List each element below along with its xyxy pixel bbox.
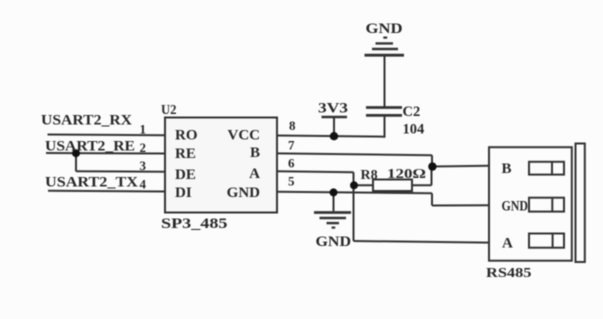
resistor R8 right lead — [412, 184, 432, 186]
svg-text:A: A — [502, 236, 513, 252]
capacitor C2 plates — [366, 108, 402, 116]
svg-text:C2: C2 — [403, 104, 421, 120]
wire GND vertical drop — [431, 193, 433, 205]
junction dot B / R8 right — [428, 162, 436, 170]
wire B vertical drop — [431, 155, 433, 166]
svg-text:U2: U2 — [161, 102, 177, 117]
wire vertical RE to DE — [75, 153, 77, 171]
svg-text:DI: DI — [175, 185, 192, 201]
svg-text:R8: R8 — [361, 168, 378, 183]
svg-text:120Ω: 120Ω — [387, 167, 426, 182]
svg-text:8: 8 — [289, 118, 296, 133]
svg-text:DE: DE — [175, 167, 196, 183]
svg-text:6: 6 — [288, 156, 295, 171]
svg-text:SP3_485: SP3_485 — [161, 216, 228, 232]
connector pin box A — [529, 234, 564, 248]
svg-text:B: B — [502, 161, 512, 177]
svg-text:GND: GND — [227, 185, 261, 201]
svg-text:1: 1 — [140, 122, 147, 137]
svg-text:2: 2 — [140, 140, 147, 155]
svg-text:B: B — [250, 145, 260, 161]
wire pin 8 VCC — [277, 136, 386, 137]
junction dot RE/DE — [72, 149, 80, 157]
svg-text:RE: RE — [175, 146, 196, 162]
wire pin 6 A — [277, 170, 354, 173]
svg-text:7: 7 — [288, 138, 295, 153]
resistor R8 body — [373, 180, 412, 192]
svg-text:3V3: 3V3 — [318, 101, 348, 117]
wire USART2_RX to pin 1 — [48, 134, 166, 137]
connector RS485 main body — [489, 147, 572, 261]
resistor R8 left lead — [355, 184, 374, 186]
wire USART2_RE to pin 2 — [46, 152, 165, 155]
wire A to connector — [354, 241, 491, 243]
connector RS485 right tab — [576, 144, 585, 263]
connector pin box GND — [529, 198, 564, 212]
svg-text:USART2_TX: USART2_TX — [45, 175, 139, 191]
wire B to connector — [432, 165, 490, 168]
ground top (above C2) — [365, 38, 405, 56]
svg-text:5: 5 — [288, 174, 295, 189]
resistor R8 lead up to B net — [431, 167, 433, 186]
wire GND to connector — [432, 204, 490, 206]
svg-text:RS485: RS485 — [486, 266, 532, 281]
junction dot 3V3 on VCC wire — [330, 132, 338, 140]
junction dot GND stem — [330, 188, 338, 196]
svg-text:GND: GND — [502, 198, 529, 214]
junction dot A / R8 left — [350, 181, 358, 189]
wire 3V3 stem — [333, 117, 335, 136]
wire pin 5 GND — [277, 192, 432, 194]
wire C2 upper stem — [384, 56, 386, 107]
svg-text:RO: RO — [175, 128, 198, 144]
svg-text:4: 4 — [140, 177, 147, 192]
wire A vertical — [353, 172, 355, 241]
svg-text:A: A — [249, 166, 260, 182]
svg-text:VCC: VCC — [228, 127, 261, 143]
svg-text:104: 104 — [403, 122, 425, 138]
connector pin box B — [529, 162, 564, 175]
svg-text:USART2_RX: USART2_RX — [41, 113, 133, 129]
ground bottom (pin 5) — [314, 192, 351, 227]
wire C2 lower stem — [384, 116, 386, 136]
wire pin 7 B — [277, 153, 432, 155]
svg-text:GND: GND — [316, 234, 352, 250]
IC U2 SP3_485 body — [165, 118, 277, 213]
wire to pin 3 — [76, 170, 165, 172]
wire USART2_TX to pin 4 — [48, 190, 165, 193]
svg-text:3: 3 — [140, 158, 147, 173]
net label 3V3 tick — [322, 116, 348, 118]
svg-text:GND: GND — [366, 21, 403, 37]
svg-text:USART2_RE: USART2_RE — [45, 139, 135, 155]
